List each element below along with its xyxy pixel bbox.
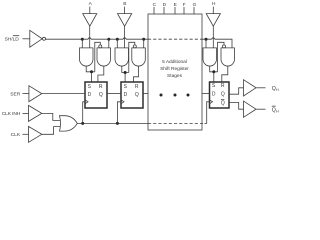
wire S2 crosslink to R2 bubble: [129, 42, 135, 72]
wire A stub: [89, 7, 91, 14]
wire QH output: [256, 87, 266, 89]
svg-text:D: D: [163, 2, 167, 8]
svg-text:Q: Q: [221, 100, 225, 106]
wire S2 output to FF2 S: [122, 66, 129, 82]
wire hop over A data: [88, 38, 91, 39]
node load dot S2: [116, 38, 119, 41]
inverter U1 bubble: [43, 37, 46, 40]
svg-text:5 Additional: 5 Additional: [162, 59, 187, 65]
bubble R8 input: [223, 45, 226, 48]
svg-text:D: D: [212, 92, 216, 98]
label E: [174, 2, 177, 8]
wire clock line: [77, 122, 148, 124]
svg-text:E: E: [174, 2, 177, 8]
wire CLK INH to OR: [42, 113, 60, 120]
node load dot R2: [142, 38, 145, 41]
svg-text:H: H: [276, 109, 279, 113]
flip-flop FF8: [210, 82, 230, 108]
svg-text:Q: Q: [99, 92, 103, 98]
overline on LD: [13, 35, 19, 37]
wire load to gate S2: [116, 39, 118, 48]
svg-text:CLK INH: CLK INH: [2, 111, 21, 117]
svg-text:H: H: [276, 88, 279, 92]
wire G stub: [193, 7, 195, 14]
svg-text:B: B: [123, 1, 126, 7]
wire FF1 Q to FF2 D: [107, 93, 121, 95]
label C: [153, 2, 157, 8]
wire clock to FF1: [83, 102, 85, 124]
label H: [212, 1, 216, 7]
wire SER to FF1 D: [42, 93, 85, 95]
svg-text:R: R: [135, 84, 139, 90]
wire SER to buffer: [23, 93, 29, 95]
node S8 junction: [212, 70, 215, 73]
wire CLK to OR: [42, 127, 61, 135]
flip-flop FF1: [85, 82, 107, 108]
and-gate S8: [203, 48, 217, 66]
label A: [89, 1, 93, 7]
svg-text:CLK: CLK: [11, 132, 21, 138]
svg-text:Q: Q: [135, 92, 139, 98]
wire box to FF8 D: [202, 93, 210, 95]
node ellipsis dots: [160, 94, 190, 97]
svg-text:SER: SER: [10, 91, 21, 97]
svg-text:D: D: [124, 92, 128, 98]
flip-flop FF2: [121, 82, 143, 108]
wire load line left segment: [46, 38, 149, 40]
svg-text:G: G: [193, 2, 197, 8]
wire E stub: [174, 7, 176, 14]
buffer CLK INH: [29, 105, 42, 121]
label B: [123, 1, 126, 7]
buffer B: [118, 14, 132, 27]
overline on QHbar: [272, 105, 276, 107]
label F: [183, 2, 186, 8]
node load dot S1: [81, 38, 84, 41]
wire hop over B data: [123, 38, 126, 39]
buffer QHbar: [244, 101, 257, 117]
bubble R2 input: [133, 45, 136, 48]
label 5 additional shift register stages: [160, 59, 189, 79]
wire load to gate S1: [81, 39, 83, 48]
buffer QH: [244, 80, 257, 96]
and-gate S2: [115, 48, 129, 66]
label CLK INH: [2, 111, 21, 117]
label QH: [272, 86, 279, 92]
buffer A: [83, 14, 97, 27]
svg-text:Stages: Stages: [167, 73, 183, 79]
and-gate R8: [221, 48, 235, 66]
label G: [193, 2, 197, 8]
wire R1 output to FF1 R: [98, 66, 104, 82]
box 5 additional stages: [148, 14, 202, 130]
wire load line right segment: [202, 39, 232, 48]
wire CLK INH to buffer: [23, 112, 29, 114]
wire FF8 Q to buffer: [229, 88, 244, 94]
wire QHbar output: [256, 108, 266, 110]
label SH/LD input: [5, 36, 20, 42]
wire S8 output to FF8 S: [210, 66, 218, 82]
svg-text:D: D: [88, 92, 92, 98]
wire clock to FF8: [205, 102, 210, 124]
wire clock line dashed in box: [148, 122, 205, 124]
wire CLK to buffer: [23, 133, 29, 135]
bubble R1 input: [99, 45, 102, 48]
wire A data: [89, 26, 91, 48]
label D: [163, 2, 167, 8]
wire S8 crosslink to R8 bubble: [218, 42, 224, 72]
wire clock to FF2: [117, 102, 121, 124]
wire B stub: [124, 7, 126, 14]
wire hop over H data: [212, 38, 215, 39]
and-gate S1: [80, 48, 94, 66]
svg-text:F: F: [183, 2, 186, 8]
svg-text:R: R: [99, 84, 103, 90]
or-gate clock: [60, 116, 78, 131]
wire D stub: [163, 7, 165, 14]
wire S1 output to FF1 S: [86, 66, 95, 82]
buffer SER: [29, 86, 42, 102]
inverter U1 (SH/LD): [30, 30, 42, 47]
label QHbar: [272, 107, 279, 113]
node clock dot FF1: [81, 122, 84, 125]
wire R2 output to FF2 R: [134, 66, 139, 82]
wire H data: [212, 26, 214, 48]
wire FF8 Qbar to buffer: [229, 102, 244, 109]
wire F stub: [183, 7, 185, 14]
svg-text:H: H: [212, 1, 216, 7]
node S2 junction: [124, 71, 127, 74]
svg-text:SH/LD: SH/LD: [5, 36, 20, 42]
buffer H: [206, 14, 220, 27]
wire S1 crosslink to R1 bubble: [95, 42, 101, 72]
node S1 junction: [90, 70, 93, 73]
wire H stub: [212, 7, 214, 14]
svg-text:C: C: [153, 2, 157, 8]
svg-text:R: R: [221, 83, 225, 89]
wire load to gate R2: [143, 39, 145, 48]
wire SH/LD to inverter: [23, 38, 30, 40]
wire load to gate S8: [205, 39, 207, 48]
buffer CLK: [29, 126, 42, 142]
label CLK: [11, 132, 21, 138]
and-gate R2: [132, 48, 146, 66]
wire R8 output to FF8 R: [222, 66, 228, 82]
wire load to gate R1: [108, 39, 110, 48]
svg-text:Q: Q: [221, 92, 225, 98]
svg-text:Shift Register: Shift Register: [160, 66, 189, 72]
node load dot R1: [107, 38, 110, 41]
and-gate R1: [97, 48, 111, 66]
label SER: [10, 91, 21, 97]
wire FF2 Q to box: [143, 93, 148, 95]
node clock dot FF2: [116, 122, 119, 125]
wire B data: [124, 26, 126, 48]
wire C stub: [153, 7, 155, 14]
node load dot S8: [205, 38, 208, 41]
wire load line dashed in box: [148, 38, 202, 40]
